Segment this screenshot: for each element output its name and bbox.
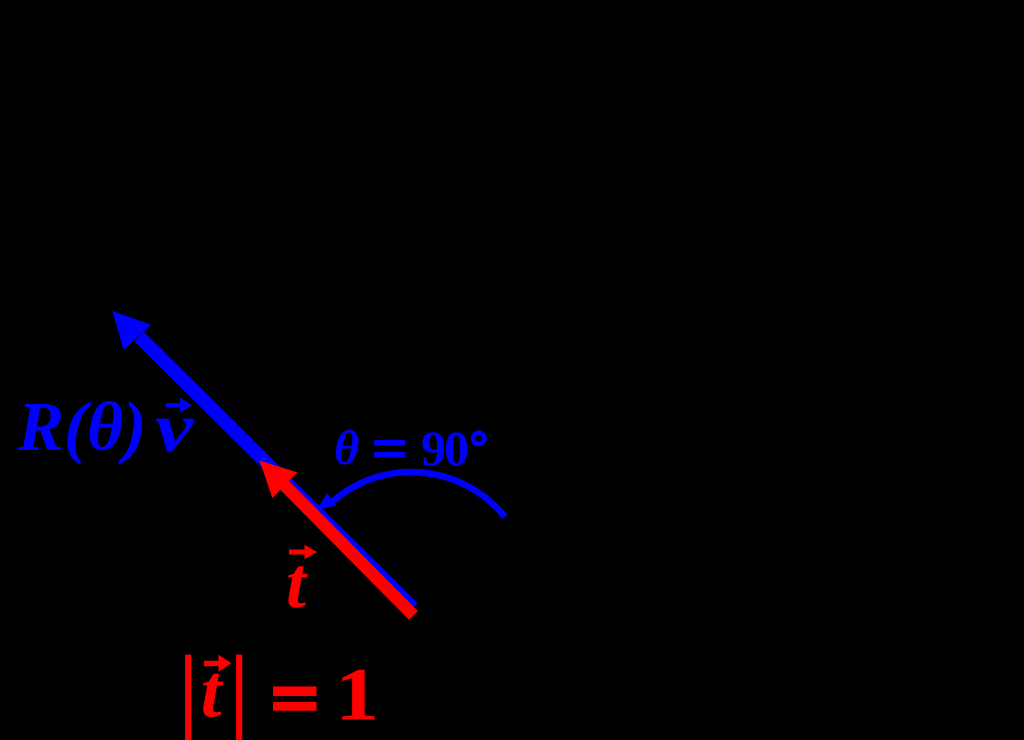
svg-text:θ: θ (334, 422, 359, 475)
vector accent over t in norm (204, 661, 219, 667)
svg-text:v: v (155, 390, 194, 467)
equals sign of norm equation (273, 686, 317, 696)
angle arc theta=90 (332, 472, 505, 517)
svg-text:1: 1 (335, 654, 379, 737)
norm bar left (185, 655, 191, 740)
vector accent over t (289, 550, 306, 555)
degree ring (473, 433, 484, 444)
svg-text:R(θ): R(θ) (17, 389, 147, 466)
norm bar right (236, 655, 242, 740)
vector R(theta)v blue arrowhead (112, 311, 151, 350)
vector R(theta)v blue arrow shaft (139, 337, 413, 609)
vector accent over v (166, 403, 182, 408)
angle arc arrowhead (317, 493, 337, 509)
vector t red arrow shaft (284, 485, 414, 616)
equals sign of theta label (374, 440, 405, 446)
vector t red arrowhead (260, 461, 298, 499)
svg-text:90: 90 (421, 420, 469, 476)
